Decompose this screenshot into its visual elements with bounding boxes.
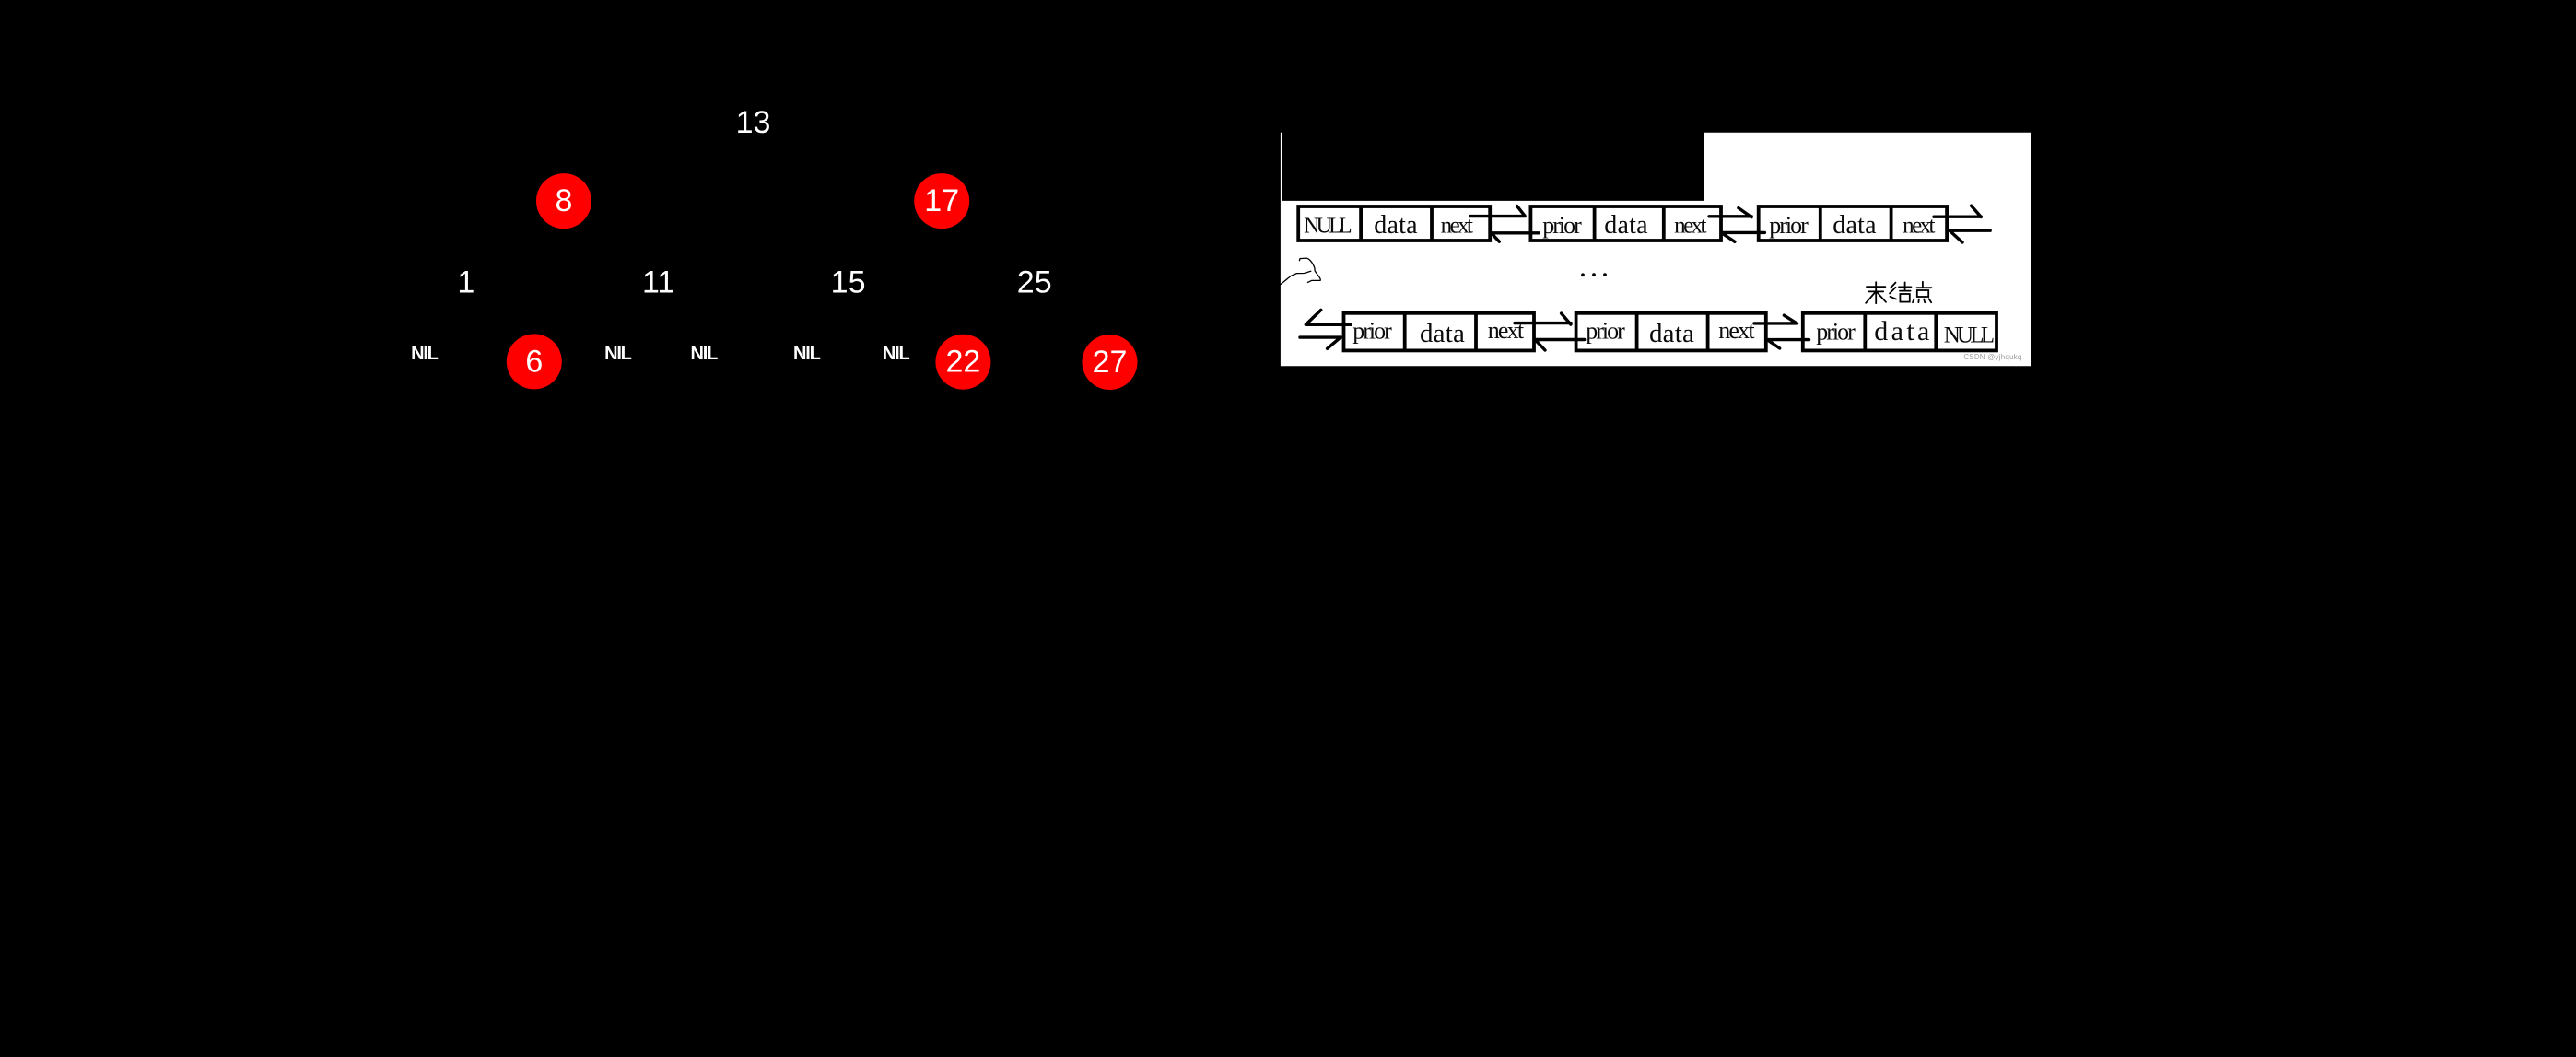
svg-text:prior: prior xyxy=(1769,212,1809,239)
svg-text:data: data xyxy=(1420,319,1465,348)
svg-text:NIL: NIL xyxy=(411,344,439,364)
svg-text:25: 25 xyxy=(1017,264,1052,299)
svg-text:22: 22 xyxy=(945,345,980,380)
svg-text:data: data xyxy=(1832,211,1877,240)
svg-text:13: 13 xyxy=(736,105,771,140)
svg-text:prior: prior xyxy=(1586,317,1625,344)
svg-text:prior: prior xyxy=(1542,212,1582,239)
svg-text:15: 15 xyxy=(831,264,866,299)
svg-text:NIL: NIL xyxy=(604,344,632,364)
svg-text:27: 27 xyxy=(1093,345,1128,380)
svg-text:NIL: NIL xyxy=(883,344,910,364)
svg-text:prior: prior xyxy=(1352,317,1392,344)
svg-text:next: next xyxy=(1441,214,1473,239)
svg-text:next: next xyxy=(1674,214,1706,239)
svg-text:next: next xyxy=(1903,214,1935,239)
svg-text:NIL: NIL xyxy=(690,344,718,364)
svg-text:data: data xyxy=(1649,319,1694,348)
svg-text:prior: prior xyxy=(1816,319,1856,346)
svg-text:6: 6 xyxy=(525,344,543,379)
svg-text:data: data xyxy=(1874,316,1933,346)
svg-text:NIL: NIL xyxy=(793,344,821,364)
svg-text:next: next xyxy=(1718,317,1755,344)
svg-text:data: data xyxy=(1604,211,1648,240)
svg-text:next: next xyxy=(1488,317,1525,344)
svg-text:17: 17 xyxy=(924,183,959,218)
svg-text:CSDN @yjhqukq: CSDN @yjhqukq xyxy=(1963,353,2021,361)
svg-text:11: 11 xyxy=(642,264,674,299)
svg-text:1: 1 xyxy=(457,264,474,299)
svg-text:data: data xyxy=(1374,211,1418,240)
svg-text:NULL: NULL xyxy=(1304,215,1352,239)
svg-text:NULL: NULL xyxy=(1944,323,1994,348)
svg-text:8: 8 xyxy=(556,183,573,218)
